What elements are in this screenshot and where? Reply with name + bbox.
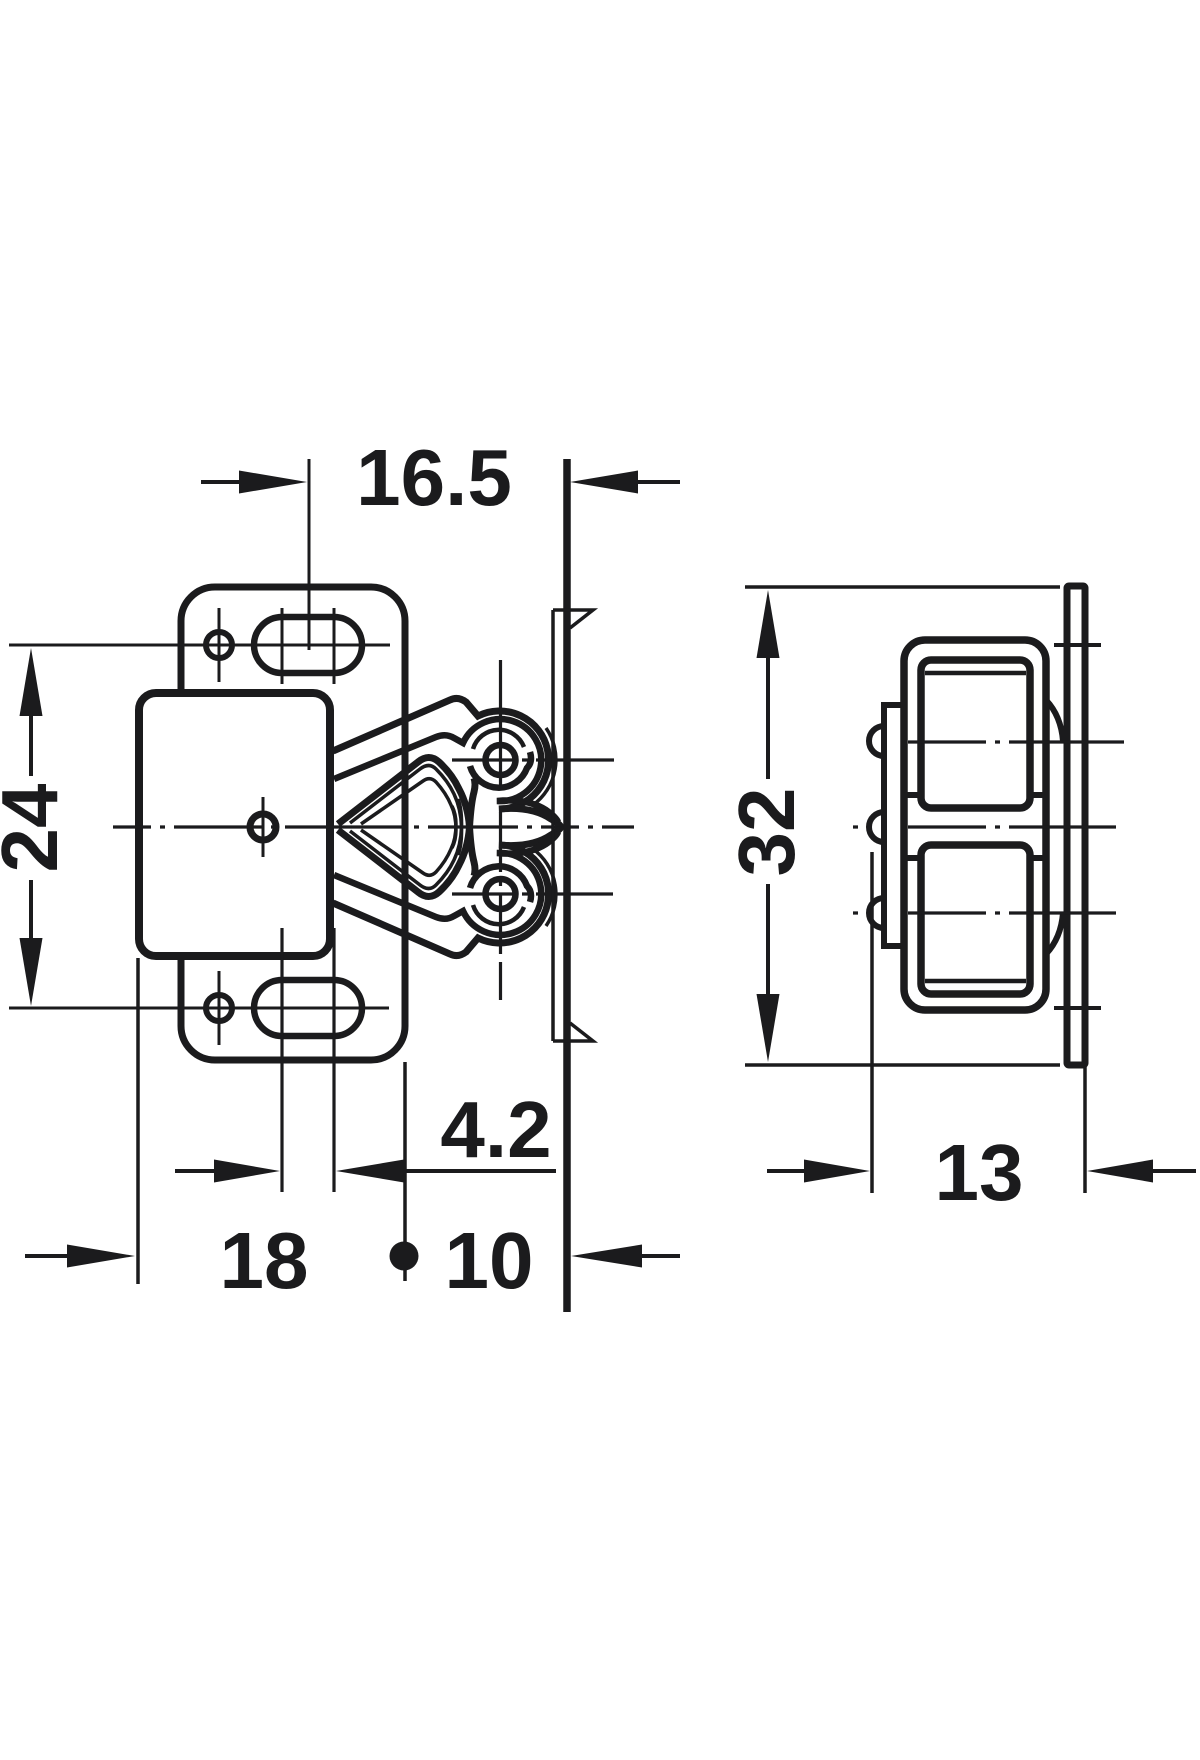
svg-text:16.5: 16.5 xyxy=(356,433,512,522)
svg-text:18: 18 xyxy=(220,1216,309,1305)
svg-text:13: 13 xyxy=(935,1128,1024,1217)
svg-text:10: 10 xyxy=(445,1216,534,1305)
svg-text:32: 32 xyxy=(722,788,811,877)
svg-text:24: 24 xyxy=(0,783,74,872)
svg-text:4.2: 4.2 xyxy=(440,1085,551,1174)
